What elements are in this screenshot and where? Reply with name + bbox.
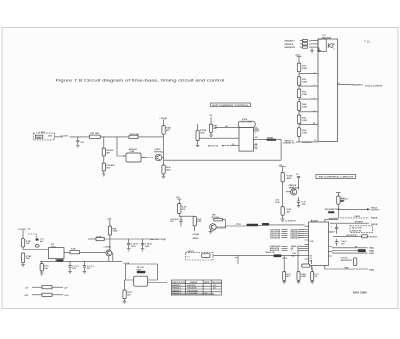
resistor R47 <box>210 124 213 132</box>
TB/RUN dark tag <box>247 224 259 227</box>
resistor R34 <box>108 226 111 235</box>
svg-text:+12V(A): +12V(A) <box>158 238 166 241</box>
collector stub cap C50 <box>297 176 300 189</box>
TB CONTROL CIRCUIT title box <box>316 175 356 179</box>
svg-text:CLOCK: CLOCK <box>61 135 69 137</box>
svg-text:INDICATOR: INDICATOR <box>341 259 352 262</box>
table column lines <box>186 280 212 295</box>
svg-text:100K: 100K <box>302 94 307 96</box>
svg-text:+12V: +12V <box>24 295 29 297</box>
svg-text:+12VA: +12VA <box>123 262 130 265</box>
resistor R81 <box>283 272 286 281</box>
TIMER dark tag <box>267 139 277 141</box>
svg-text:10uF: 10uF <box>275 202 280 204</box>
transistor TR6 buffer <box>155 154 162 161</box>
svg-text:10M: 10M <box>48 136 52 138</box>
IC2 right pins <box>329 232 333 256</box>
svg-text:RANGE: RANGE <box>190 281 198 284</box>
wire drop A below bus <box>283 255 285 271</box>
bead L1 <box>42 286 52 289</box>
resistor R50 <box>281 173 284 182</box>
svg-text:1US-2US: 1US-2US <box>187 285 196 287</box>
svg-text:CMOS0/TB: CMOS0/TB <box>270 237 281 239</box>
svg-text:OUTPUT: OUTPUT <box>369 237 378 239</box>
table header rule <box>171 282 221 284</box>
dash-dot sense line <box>28 234 37 238</box>
table row rules <box>171 286 221 294</box>
resistor R64 <box>297 102 301 111</box>
svg-text:RANGE.4: RANGE.4 <box>172 292 182 295</box>
transistor output wire <box>112 253 113 261</box>
ground inside oscillator <box>310 48 314 53</box>
svg-text:100V: 100V <box>145 246 150 248</box>
capacitor C40 <box>179 218 182 225</box>
svg-text:RATE: RATE <box>204 281 210 284</box>
IC2 bottom pins <box>310 266 312 270</box>
net CLOCK 1MHz <box>55 136 63 138</box>
svg-text:74.10: 74.10 <box>282 257 288 260</box>
ground under R83 <box>310 281 314 284</box>
pin 13 stub <box>254 146 258 148</box>
input wire to IC4 pin 2 <box>199 137 239 139</box>
svg-text:EHT CURRENT CONTROL: EHT CURRENT CONTROL <box>213 105 250 107</box>
svg-text:7-12: 7-12 <box>364 40 370 44</box>
resistor R61 <box>297 63 301 72</box>
TB clock in/out dashed box <box>350 226 373 233</box>
ground at TR9 <box>209 230 213 234</box>
output stub <box>148 282 168 284</box>
TIMER dark tag <box>57 259 64 262</box>
+12V(A) distribution rail <box>88 238 96 240</box>
svg-text:IN/OUT P4: IN/OUT P4 <box>352 229 363 232</box>
svg-text:Figure 7.8 Circuit diagram of: Figure 7.8 Circuit diagram of time-base,… <box>56 79 225 83</box>
wire into oscillator IC5 <box>117 137 126 156</box>
ground under R24 <box>102 171 106 176</box>
node to pin 5 <box>299 85 318 87</box>
resistor R26 <box>162 165 165 174</box>
resistor R25 <box>162 126 165 135</box>
tag box <box>340 200 344 202</box>
svg-text:P4(3): P4(3) <box>369 247 374 250</box>
svg-text:(+WAVE) TO ...: (+WAVE) TO ... <box>283 141 297 144</box>
IC1 7555 timer body <box>49 248 65 259</box>
base resistor R42 <box>214 218 223 221</box>
svg-text:RANGE/10: RANGE/10 <box>285 40 296 43</box>
bead L2 <box>42 293 52 296</box>
svg-text:MAY 2000: MAY 2000 <box>353 291 367 295</box>
feedback loop wire <box>126 264 158 280</box>
svg-text:+12V: +12V <box>64 295 69 297</box>
wire drop B below bus <box>297 246 299 271</box>
frequency output pin 8 <box>338 84 351 86</box>
capacitor C34 <box>83 261 87 273</box>
resistor R62 <box>297 77 301 86</box>
svg-text:100K: 100K <box>302 107 307 109</box>
svg-text:LINK.B: LINK.B <box>187 251 194 253</box>
net TR/LB OUTPUT <box>338 208 369 210</box>
svg-text:RANGE.2: RANGE.2 <box>172 287 182 290</box>
svg-text:1.5US-5MS: 1.5US-5MS <box>187 293 198 295</box>
crystal X-TAL1 dashed enclosure <box>33 133 54 140</box>
svg-text:10K-1: 10K-1 <box>166 170 172 172</box>
node to pin 6 <box>299 111 318 113</box>
resistor R63 <box>297 89 301 98</box>
divider chain wire <box>103 137 105 148</box>
pin 1 stub <box>254 130 260 132</box>
svg-text:10K: 10K <box>26 243 30 245</box>
resistor R24 <box>102 163 105 171</box>
svg-text:OUTPUT(S): OUTPUT(S) <box>346 235 357 237</box>
ground under R82 <box>297 281 301 284</box>
capacitor C30 (tantalum) <box>36 238 39 240</box>
tap TP <box>237 255 239 264</box>
IC2 top pins <box>311 220 338 222</box>
svg-text:P4(1)B: P4(1)B <box>371 223 378 226</box>
svg-text:OUTPUT: OUTPUT <box>371 210 380 212</box>
divider ladder wire <box>298 63 300 142</box>
dark tag <box>137 271 146 273</box>
wire to VCO input <box>215 126 239 128</box>
oscillator IC7 <box>134 276 148 286</box>
svg-text:RANGE.5: RANGE.5 <box>291 236 301 239</box>
svg-text:VCO COUNT: VCO COUNT <box>241 122 254 124</box>
wire from release node <box>329 217 339 219</box>
svg-text:TO ALL OUTPUTS: TO ALL OUTPUTS <box>365 85 383 88</box>
net OUTPUT(S) <box>333 235 362 237</box>
ground under R37 <box>123 299 127 304</box>
svg-text:100K: 100K <box>302 82 307 84</box>
resistor R23 <box>102 148 105 156</box>
svg-text:P4(6): P4(6) <box>369 268 374 271</box>
capacitor C31 <box>127 239 131 251</box>
svg-text:10N: 10N <box>302 204 306 206</box>
pin 15 stub <box>254 128 260 130</box>
svg-text:RATE: RATE <box>355 215 361 218</box>
svg-text:SWITCH POS: SWITCH POS <box>172 282 185 284</box>
IC3 oscillator sub-block <box>318 39 326 52</box>
svg-text:1US-500US: 1US-500US <box>187 291 198 293</box>
svg-text:74HC4.1N: 74HC4.1N <box>265 251 275 254</box>
resistor R66 <box>297 128 301 137</box>
preset RV1 <box>35 245 39 248</box>
net TP sweep rows <box>332 247 368 249</box>
svg-text:RELEASE TIME: RELEASE TIME <box>325 208 340 211</box>
ground under R81 <box>282 281 286 284</box>
capacitor C33 <box>68 261 72 273</box>
svg-text:RANGE/1: RANGE/1 <box>285 43 295 46</box>
resistor R90 <box>337 196 340 204</box>
pin 11 stub <box>254 144 258 146</box>
node to pin 7 <box>299 73 318 75</box>
IC3 74HC4060 body <box>318 39 338 142</box>
main clock bus <box>213 254 305 256</box>
net REF bottom <box>335 268 368 270</box>
svg-text:P4(5): P4(5) <box>369 252 374 255</box>
resistor R36 under IC <box>41 261 43 263</box>
svg-text:100K: 100K <box>200 133 205 135</box>
svg-text:1US-50US: 1US-50US <box>187 288 197 290</box>
ground under R26 <box>162 174 166 179</box>
resistor R91 <box>354 258 357 266</box>
dashed link to buffer <box>141 157 146 159</box>
IC4 timer body <box>239 128 254 152</box>
resistor R41 <box>194 215 196 217</box>
node to pin 14 <box>299 123 318 125</box>
resistor R82 <box>297 272 300 281</box>
resistor R46 bias <box>197 124 199 130</box>
resistor R40 <box>178 204 181 214</box>
op-amp IC4-B block <box>238 121 255 127</box>
net EXTENT <box>330 222 369 224</box>
table frame <box>171 280 221 295</box>
svg-text:R21 10M: R21 10M <box>91 133 99 135</box>
capacitor C32 <box>141 239 145 251</box>
resistor R37 <box>125 280 126 290</box>
ground under R32 <box>21 263 25 267</box>
svg-text:P4(2)B: P4(2)B <box>371 217 378 220</box>
svg-text:IC.B 40103: IC.B 40103 <box>286 220 297 223</box>
ground under R51 <box>280 219 285 221</box>
transistor Q10 (inverter symbol inside IC3) <box>328 43 333 48</box>
svg-text:EHT 4.7uA: EHT 4.7uA <box>208 145 219 148</box>
ground under R47 <box>209 132 213 136</box>
svg-text:TB CLOCK: TB CLOCK <box>212 282 223 284</box>
svg-text:FREQUENCY: FREQUENCY <box>351 85 364 87</box>
resistor R65 <box>297 115 301 124</box>
svg-text:P4(4): P4(4) <box>369 249 374 252</box>
resistor R51 <box>281 207 284 216</box>
svg-text:100V: 100V <box>131 246 136 248</box>
ground at oscillator block <box>317 48 321 52</box>
resistor R31 <box>21 239 24 247</box>
IC2 left pins <box>305 226 309 259</box>
svg-text:RANGE.3: RANGE.3 <box>172 290 182 293</box>
RUN dark tag 2 <box>262 223 269 226</box>
run control net <box>216 226 246 227</box>
node to timer trigger <box>23 247 49 250</box>
svg-text:X-TAL1: X-TAL1 <box>39 131 47 134</box>
svg-text:100E: 100E <box>113 231 118 233</box>
capacitor C60 <box>335 224 338 234</box>
capacitor C51 <box>297 197 300 205</box>
svg-text:CLK: CLK <box>309 241 314 243</box>
crystal element <box>35 135 43 138</box>
svg-text:TR/FREQ: TR/FREQ <box>154 152 163 154</box>
link LK1 dashed box <box>186 252 214 260</box>
node to pin 4 <box>299 98 318 100</box>
EHT CURRENT CONTROL title box <box>211 103 251 107</box>
svg-text:1MHZ: 1MHZ <box>36 137 42 139</box>
svg-text:TB CONTROL CIRCUIT: TB CONTROL CIRCUIT <box>319 177 355 179</box>
link oval below IC <box>302 264 310 267</box>
svg-text:RANGE.1: RANGE.1 <box>172 284 182 287</box>
resistor R83 <box>311 272 314 281</box>
svg-text:10K: 10K <box>44 268 48 270</box>
IC2 body <box>309 222 329 266</box>
capacitor C20 <box>76 137 79 147</box>
svg-text:100M: 100M <box>301 276 306 278</box>
ground under C51 <box>297 206 300 208</box>
svg-text:RANGE/TB: RANGE/TB <box>285 46 296 49</box>
emitter rail <box>40 256 122 262</box>
timer output wire <box>64 251 70 253</box>
svg-text:+12V: +12V <box>107 218 112 220</box>
svg-text:100K: 100K <box>302 133 307 135</box>
svg-text:100K: 100K <box>302 68 307 70</box>
wire from IC2 pin to REF line <box>325 266 335 270</box>
svg-text:+12V(B): +12V(B) <box>103 246 111 248</box>
svg-text:CURRENT: CURRENT <box>302 142 313 144</box>
+12V tee <box>336 193 341 196</box>
resistor R32 <box>21 253 24 263</box>
dark tag on bus <box>274 254 282 257</box>
transistor TR8 <box>106 250 112 256</box>
svg-text:100K: 100K <box>302 120 307 122</box>
link element <box>202 254 211 258</box>
svg-text:+12V(B): +12V(B) <box>192 234 200 236</box>
timer output route <box>164 139 282 160</box>
svg-text:+12V(A): +12V(A) <box>18 228 26 231</box>
net RATE dashed <box>340 217 369 219</box>
capacitor C61 <box>335 239 338 246</box>
svg-text:EXTENT: EXTENT <box>355 222 364 224</box>
+5V tee <box>280 167 286 173</box>
svg-text:RAMP: RAMP <box>193 237 200 240</box>
